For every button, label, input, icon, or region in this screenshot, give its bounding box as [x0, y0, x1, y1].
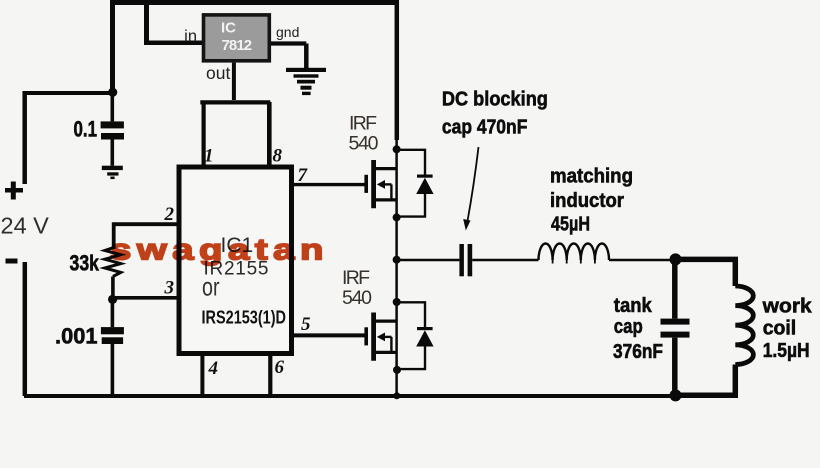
svg-text:in: in [184, 28, 197, 46]
svg-text:matching: matching [550, 165, 633, 187]
svg-text:tank: tank [614, 295, 653, 317]
svg-text:inductor: inductor [550, 190, 624, 212]
svg-text:out: out [206, 63, 230, 83]
svg-text:4: 4 [208, 358, 219, 379]
svg-text:2: 2 [164, 204, 175, 225]
svg-text:376nF: 376nF [613, 341, 663, 363]
svg-text:cap: cap [614, 316, 643, 338]
svg-text:24 V: 24 V [1, 213, 50, 239]
svg-text:7: 7 [298, 165, 309, 186]
svg-text:.001: .001 [55, 324, 98, 349]
svg-text:coil: coil [763, 318, 797, 340]
svg-text:IRS2153(1)D: IRS2153(1)D [202, 307, 287, 328]
svg-text:swagatan: swagatan [110, 233, 329, 266]
svg-text:cap 470nF: cap 470nF [442, 116, 528, 138]
svg-text:6: 6 [275, 357, 285, 378]
svg-text:IRF: IRF [349, 113, 377, 135]
svg-text:7812: 7812 [222, 37, 253, 54]
svg-text:IC: IC [221, 20, 236, 37]
svg-text:or: or [202, 271, 220, 301]
svg-text:DC blocking: DC blocking [442, 89, 548, 111]
svg-text:45µH: 45µH [551, 213, 590, 235]
svg-text:1.5µH: 1.5µH [763, 340, 810, 362]
svg-text:IRF: IRF [342, 267, 370, 289]
svg-text:1: 1 [204, 146, 214, 167]
svg-text:8: 8 [273, 146, 283, 167]
svg-text:work: work [762, 295, 813, 317]
svg-text:3: 3 [164, 278, 175, 299]
svg-text:33k: 33k [70, 251, 100, 276]
svg-text:540: 540 [349, 133, 379, 155]
svg-text:5: 5 [301, 314, 311, 335]
svg-text:gnd: gnd [276, 24, 299, 40]
svg-text:0.1: 0.1 [74, 117, 98, 142]
svg-text:540: 540 [342, 287, 372, 309]
